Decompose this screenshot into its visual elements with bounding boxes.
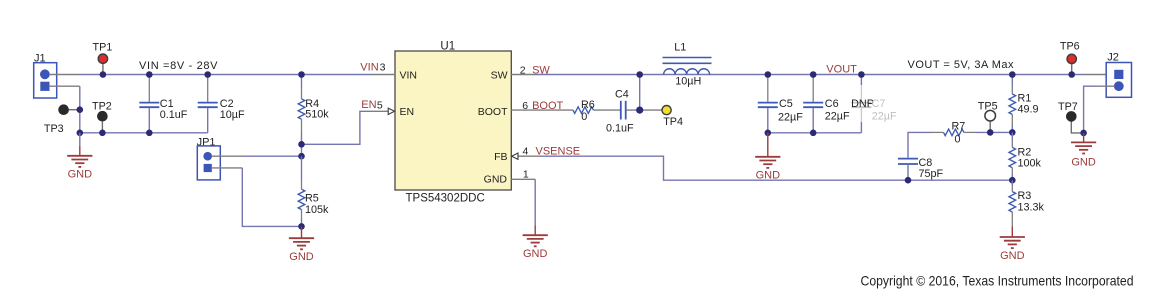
capacitor C4 bbox=[606, 88, 634, 134]
svg-text:BOOT: BOOT bbox=[532, 100, 563, 112]
test point TP4 bbox=[662, 106, 683, 129]
svg-text:10µH: 10µH bbox=[675, 75, 701, 87]
svg-text:3: 3 bbox=[380, 62, 386, 74]
svg-text:BOOT: BOOT bbox=[478, 106, 508, 118]
node junction TP6 bbox=[1068, 71, 1075, 78]
svg-text:Copyright © 2016, Texas Instru: Copyright © 2016, Texas Instruments Inco… bbox=[861, 274, 1134, 289]
svg-text:C8: C8 bbox=[919, 157, 933, 169]
test point TP6 bbox=[1060, 41, 1080, 75]
svg-text:13.3k: 13.3k bbox=[1018, 202, 1045, 214]
wire J1 pin1 lead bbox=[49, 74, 80, 76]
wire J2 pin2 lead bbox=[1097, 85, 1115, 87]
node junction R1 top bbox=[1009, 71, 1016, 78]
capacitor C5 bbox=[758, 76, 803, 133]
ground GND JP1/R5 bbox=[289, 226, 314, 263]
wire right ground rail bbox=[768, 132, 862, 134]
ground GND C5/C6 bbox=[755, 133, 780, 182]
svg-text:C7: C7 bbox=[872, 98, 886, 110]
svg-text:U1: U1 bbox=[440, 40, 455, 52]
svg-text:C6: C6 bbox=[825, 98, 839, 110]
resistor R5 bbox=[298, 156, 329, 226]
ground GND left bbox=[67, 133, 92, 181]
wire GND pin lead bbox=[511, 178, 535, 180]
svg-text:510k: 510k bbox=[305, 109, 329, 121]
svg-text:22µF: 22µF bbox=[872, 110, 897, 122]
wire JP1 pin2 lead bbox=[212, 167, 243, 169]
node junction C5 top bbox=[765, 71, 772, 78]
svg-text:R7: R7 bbox=[952, 120, 966, 132]
capacitor C8 bbox=[898, 157, 944, 180]
wire SW/VOUT rail bbox=[535, 74, 1083, 76]
capacitor C7 DNP bbox=[851, 76, 897, 133]
svg-text:VIN: VIN bbox=[360, 61, 378, 73]
node junction C6 bottom bbox=[810, 130, 817, 137]
svg-text:C2: C2 bbox=[220, 98, 234, 110]
svg-text:VOUT = 5V, 3A Max: VOUT = 5V, 3A Max bbox=[908, 59, 1015, 71]
op-amp U1 TPS54302DDC body bbox=[395, 40, 511, 204]
test point TP3 bbox=[44, 105, 80, 135]
inductor L1 bbox=[663, 42, 712, 88]
svg-text:R5: R5 bbox=[305, 192, 319, 204]
node junction TP1/VIN bbox=[100, 71, 107, 78]
wire JP1 pin1 lead bbox=[212, 155, 244, 157]
wire EN pin lead bbox=[371, 110, 388, 112]
svg-text:1: 1 bbox=[523, 169, 529, 181]
svg-text:TP6: TP6 bbox=[1060, 41, 1080, 53]
connector JP1 bbox=[197, 136, 221, 180]
svg-text:L1: L1 bbox=[674, 42, 686, 54]
wire SW pin lead bbox=[511, 74, 535, 76]
node junction C2 top bbox=[204, 71, 211, 78]
wire R7 to R1/R2 node bbox=[976, 131, 1012, 133]
wire R6 to C4 bbox=[593, 109, 620, 111]
connector J2 bbox=[1106, 52, 1131, 98]
pin arrow FB input bbox=[512, 153, 518, 159]
node junction BOOT/TP4 bbox=[636, 107, 643, 114]
svg-text:GND: GND bbox=[1071, 156, 1096, 168]
svg-text:100k: 100k bbox=[1018, 157, 1042, 169]
node junction TP2 bbox=[99, 130, 106, 137]
node junction C5 bottom / GND bbox=[765, 130, 772, 137]
svg-text:VIN =8V - 28V: VIN =8V - 28V bbox=[139, 60, 218, 72]
wire JP1 pin1 to R4/R5 node bbox=[243, 155, 302, 157]
node junction R4 top bbox=[298, 71, 305, 78]
svg-text:TP4: TP4 bbox=[663, 116, 683, 128]
ground GND J2 bbox=[1071, 133, 1096, 169]
resistor R4 bbox=[298, 75, 329, 157]
svg-text:10µF: 10µF bbox=[220, 109, 245, 121]
svg-text:0: 0 bbox=[955, 133, 961, 145]
resistor R7 bbox=[944, 120, 966, 145]
svg-text:GND: GND bbox=[756, 170, 781, 182]
node junction EN tap bbox=[298, 141, 305, 148]
svg-text:R3: R3 bbox=[1018, 190, 1032, 202]
node junction ground rail / GND bbox=[77, 130, 84, 137]
svg-text:R6: R6 bbox=[581, 99, 595, 111]
resistor R6 bbox=[573, 99, 595, 123]
wire J2 pin lead bbox=[1083, 74, 1115, 76]
wire VIN pin lead bbox=[371, 74, 395, 76]
svg-text:GND: GND bbox=[1000, 250, 1025, 262]
node junction SW bbox=[636, 71, 643, 78]
svg-text:C5: C5 bbox=[779, 98, 793, 110]
resistor R3 bbox=[1009, 180, 1045, 226]
svg-text:GND: GND bbox=[523, 248, 548, 260]
capacitor C2 bbox=[198, 76, 245, 133]
node junction R5 bottom / GND bbox=[298, 223, 305, 230]
test point TP2 bbox=[92, 101, 112, 133]
capacitor C6 bbox=[803, 76, 850, 133]
svg-text:105k: 105k bbox=[305, 204, 329, 216]
connector J1 bbox=[34, 52, 57, 98]
wire left ground rail bbox=[80, 132, 208, 134]
svg-text:TP7: TP7 bbox=[1058, 101, 1078, 113]
wire R7 left lead bbox=[932, 131, 944, 133]
wire J1 pin2 to ground rail bbox=[79, 86, 81, 133]
test point TP1 bbox=[93, 42, 113, 75]
node junction TP3 bbox=[77, 106, 84, 113]
svg-text:TPS54302DDC: TPS54302DDC bbox=[406, 193, 485, 205]
wire SW down to BOOT branch bbox=[639, 75, 641, 111]
node junction C8 bottom bbox=[905, 177, 912, 184]
svg-text:75pF: 75pF bbox=[919, 168, 944, 180]
svg-text:TP3: TP3 bbox=[44, 123, 64, 135]
wire C4 to TP4 bbox=[627, 109, 662, 111]
wire EN branch bbox=[302, 111, 372, 144]
svg-text:22µF: 22µF bbox=[825, 110, 850, 122]
pin arrow EN input bbox=[388, 108, 394, 114]
resistor R1 bbox=[1009, 75, 1039, 133]
wire U1 GND down bbox=[534, 179, 536, 225]
node junction C7 top bbox=[858, 71, 865, 78]
ground GND U1 bbox=[523, 226, 548, 261]
svg-text:0: 0 bbox=[581, 111, 587, 123]
node junction TP5 bbox=[987, 129, 994, 136]
svg-text:VOUT: VOUT bbox=[826, 63, 857, 75]
svg-text:0.1uF: 0.1uF bbox=[160, 109, 188, 121]
wire VSENSE branch bbox=[542, 156, 1012, 180]
node junction R1/R2/R7 bbox=[1009, 129, 1016, 136]
node junction C6 top bbox=[810, 71, 817, 78]
svg-text:2: 2 bbox=[520, 64, 526, 76]
wire BOOT pin lead and branch bbox=[511, 109, 573, 111]
svg-text:GND: GND bbox=[68, 169, 93, 181]
node junction JP1 tap bbox=[298, 153, 305, 160]
svg-text:GND: GND bbox=[484, 174, 508, 186]
svg-text:VIN: VIN bbox=[400, 69, 418, 81]
svg-text:J1: J1 bbox=[34, 52, 46, 64]
wire J2 return to ground bbox=[1084, 86, 1097, 133]
svg-text:C4: C4 bbox=[615, 88, 629, 100]
svg-text:SW: SW bbox=[532, 64, 550, 76]
svg-text:0.1uF: 0.1uF bbox=[606, 122, 634, 134]
resistor R2 bbox=[1009, 132, 1042, 180]
svg-text:EN: EN bbox=[400, 106, 415, 118]
svg-text:EN: EN bbox=[361, 99, 376, 111]
svg-text:SW: SW bbox=[491, 69, 508, 81]
ground GND R3 bbox=[1000, 227, 1025, 262]
wire main VIN rail bbox=[80, 74, 371, 76]
test point TP5 bbox=[978, 100, 998, 132]
node junction C1 top bbox=[146, 71, 153, 78]
svg-text:49.9: 49.9 bbox=[1018, 104, 1039, 116]
svg-text:FB: FB bbox=[494, 151, 507, 163]
wire R7 right lead bbox=[964, 131, 976, 133]
svg-text:TP1: TP1 bbox=[93, 42, 113, 54]
node junction TP7/J2 bbox=[1080, 130, 1087, 137]
wire FB pin lead bbox=[518, 155, 542, 157]
wire JP1 pin2 down and right to GND node bbox=[242, 168, 301, 227]
test point TP7 bbox=[1058, 101, 1084, 133]
capacitor C1 bbox=[139, 76, 188, 133]
svg-text:TP2: TP2 bbox=[92, 101, 112, 113]
svg-text:DNP: DNP bbox=[851, 98, 874, 110]
wire J1 pin2 lead bbox=[49, 85, 80, 87]
svg-text:5: 5 bbox=[377, 99, 383, 111]
node junction R2/R3/FB bbox=[1009, 177, 1016, 184]
svg-text:GND: GND bbox=[289, 251, 314, 263]
wire C8/R7 branch bbox=[908, 132, 932, 157]
svg-text:4: 4 bbox=[523, 146, 529, 158]
svg-text:6: 6 bbox=[522, 100, 528, 112]
svg-text:22µF: 22µF bbox=[778, 111, 803, 123]
svg-text:C1: C1 bbox=[160, 98, 174, 110]
node junction C1 bottom bbox=[146, 130, 153, 137]
